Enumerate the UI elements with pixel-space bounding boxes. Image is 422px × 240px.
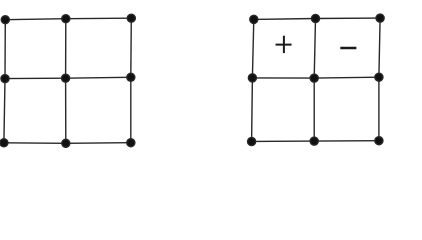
wire left row2 h2 <box>66 76 131 79</box>
wire right row1 h2 <box>316 17 381 19</box>
node left dot r2c2 <box>62 74 70 82</box>
wire left col2 v2 <box>65 78 67 143</box>
node right dot r1c3 <box>376 14 384 22</box>
node left dot r3c2 <box>62 139 70 147</box>
right grid <box>248 14 385 146</box>
wire right col2 v2 <box>313 78 315 141</box>
node right dot r2c3 <box>375 73 383 81</box>
wire left col1 v2 <box>4 79 5 143</box>
wire left row1 h2 <box>66 17 132 20</box>
node right dot r2c2 <box>310 74 318 82</box>
wire left col3 v1 <box>130 18 133 77</box>
wire left row2 h1 <box>5 77 66 79</box>
node right dot r3c2 <box>310 137 318 145</box>
node left dot r3c3 <box>127 139 135 147</box>
node left dot r2c3 <box>127 73 135 81</box>
wire right col1 v2 <box>251 78 254 142</box>
wire right col2 v1 <box>314 19 315 79</box>
node left dot r1c2 <box>62 15 70 23</box>
node right dot r2c1 <box>248 74 256 82</box>
minus sign (top-right cell of right grid) <box>340 47 356 50</box>
wire left row3 h1 <box>4 142 66 145</box>
wire right row2 h1 <box>252 77 314 79</box>
wire right col1 v1 <box>252 19 253 78</box>
node left dot r1c3 <box>127 14 135 22</box>
wire right row3 h2 <box>314 140 379 142</box>
wire right col3 v2 <box>378 77 380 141</box>
wire left col2 v1 <box>65 19 67 78</box>
plus sign (top-left cell of right grid) <box>276 36 292 53</box>
node right dot r1c2 <box>311 14 319 22</box>
node right dot r1c1 <box>250 15 258 23</box>
wire left col1 v1 <box>4 20 6 79</box>
wire right row2 h2 <box>314 76 379 79</box>
node left dot r3c1 <box>0 139 8 147</box>
wire left row1 h1 <box>5 19 66 20</box>
wire right col3 v1 <box>379 18 380 77</box>
wire right row3 h1 <box>252 140 315 142</box>
node right dot r3c3 <box>375 137 383 145</box>
wire left row3 h2 <box>66 142 131 145</box>
wire left col3 v2 <box>130 77 132 142</box>
node left dot r2c1 <box>1 75 9 83</box>
node left dot r1c1 <box>1 16 9 24</box>
left grid <box>0 14 135 147</box>
wire right row1 h1 <box>254 18 316 21</box>
node right dot r3c1 <box>248 137 256 145</box>
